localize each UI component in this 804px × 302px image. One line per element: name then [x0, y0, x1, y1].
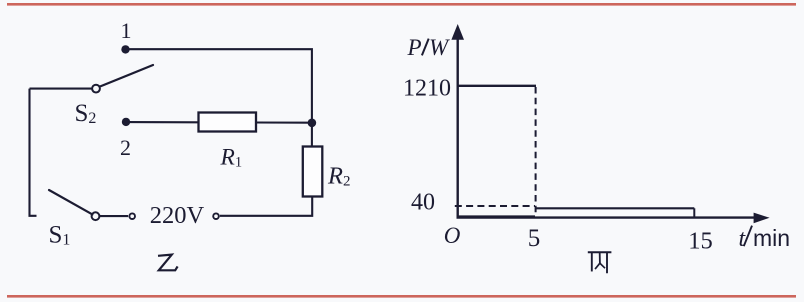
label t/min — [739, 225, 791, 252]
wire: R1 to junction — [256, 121, 312, 123]
label O (origin) — [444, 223, 461, 248]
label 5 — [528, 225, 541, 252]
svg-text:15: 15 — [688, 228, 713, 255]
wire: left rail into S2 pivot — [30, 88, 93, 90]
x-axis with arrow — [457, 213, 770, 224]
switch S1 lever — [49, 190, 92, 214]
label 2 (contact 2) — [120, 135, 131, 160]
switch S1 pivot circle — [92, 212, 100, 220]
wire: junction to R2 top — [311, 123, 313, 147]
tick drop at t=15 — [693, 208, 695, 217]
svg-text:1210: 1210 — [403, 76, 451, 102]
dashed vertical at t=5 — [535, 87, 537, 218]
line P=40 from t=5 to t=15 — [536, 207, 695, 209]
wire: S1 pivot to source left terminal — [100, 215, 129, 217]
label P/W — [407, 35, 451, 60]
wire: contact 2 to R1 — [126, 121, 199, 123]
label 乙 (figure: circuit) — [158, 255, 178, 271]
label 40 — [411, 190, 435, 216]
label R1 — [220, 145, 243, 171]
label S2 — [75, 100, 97, 127]
switch S2 pivot circle — [92, 85, 100, 93]
source left terminal circle — [129, 213, 135, 219]
wire: left vertical rail with bottom hook — [30, 89, 37, 216]
label 1210 — [403, 76, 451, 102]
label 丙 (figure: graph) — [589, 252, 611, 272]
junction node dot — [308, 119, 317, 128]
resistor R2 — [303, 147, 323, 197]
svg-text:2: 2 — [120, 135, 131, 160]
svg-text:40: 40 — [411, 190, 435, 216]
wire: R2 bottom to source right terminal — [220, 197, 312, 216]
label R2 — [327, 163, 350, 190]
switch S2 lever — [100, 65, 153, 87]
svg-text:5: 5 — [528, 225, 541, 252]
line P=1210 from t=0 to t=5 — [458, 85, 536, 87]
label 15 — [688, 228, 713, 255]
label 220V — [150, 202, 205, 229]
svg-text:1: 1 — [121, 18, 132, 43]
label S1 — [49, 222, 71, 249]
dashed horizontal at P=40 — [455, 205, 535, 207]
y-axis with arrow — [451, 24, 464, 219]
source right terminal circle — [213, 213, 219, 219]
svg-text:220V: 220V — [150, 202, 205, 229]
svg-text:O: O — [444, 223, 461, 248]
wire: contact 1 to right vertical down to junction — [126, 49, 312, 122]
label 1 (contact 1) — [121, 18, 132, 43]
resistor R1 — [199, 113, 257, 132]
node contact 1 dot — [121, 45, 129, 53]
node contact 2 dot — [122, 118, 130, 126]
